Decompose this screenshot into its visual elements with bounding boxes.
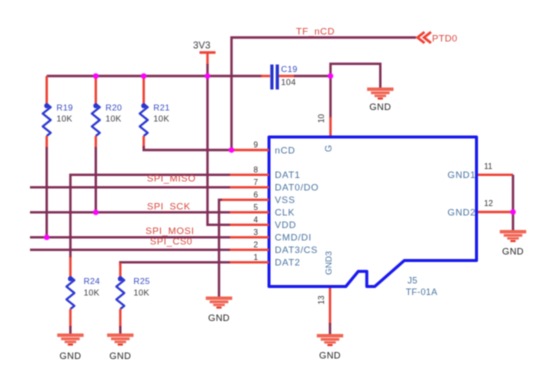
wire pin 1 row to R25	[120, 262, 230, 265]
svg-text:R25: R25	[134, 276, 151, 286]
wire R21 to nCD	[144, 146, 232, 150]
svg-text:J5: J5	[408, 276, 418, 286]
svg-text:1: 1	[254, 253, 259, 262]
svg-text:GND: GND	[109, 351, 131, 361]
svg-text:GND: GND	[502, 247, 524, 257]
svg-text:10K: 10K	[106, 114, 122, 124]
svg-text:R20: R20	[106, 103, 123, 113]
svg-text:GND: GND	[59, 351, 81, 361]
wire SPI_CS0 to pin 2	[30, 249, 230, 251]
svg-text:DAT0/DO: DAT0/DO	[275, 182, 319, 193]
pin 9 nCD	[232, 141, 296, 156]
svg-text:10K: 10K	[84, 288, 100, 298]
svg-text:104: 104	[281, 77, 296, 87]
junction bus/R20	[93, 73, 99, 79]
svg-text:5: 5	[254, 203, 259, 212]
ground GND under R25	[107, 334, 133, 362]
pin 8 DAT1	[230, 165, 300, 180]
wire SPI_MISO (pin 8 row) with drop to R24	[70, 175, 230, 258]
pin 13 stub	[329, 288, 331, 324]
wire R20 to SPI_SCK	[95, 147, 97, 212]
resistor R19	[43, 76, 73, 148]
junction GND2	[510, 209, 516, 215]
wire R25 to GND	[119, 326, 121, 334]
svg-text:11: 11	[484, 162, 493, 171]
ground GND top	[367, 88, 393, 113]
pin 3 CMD/DI	[230, 228, 312, 243]
svg-text:4: 4	[254, 215, 259, 224]
svg-text:10K: 10K	[57, 114, 73, 124]
svg-text:3: 3	[254, 228, 259, 237]
svg-text:PTD0: PTD0	[432, 33, 457, 44]
svg-text:CLK: CLK	[275, 207, 295, 218]
junction nCD	[229, 147, 235, 153]
wire TF_nCD vertical and horizontal to port	[232, 38, 417, 151]
wire pin13 to GND	[329, 323, 331, 334]
svg-text:GND: GND	[208, 313, 230, 323]
svg-text:10K: 10K	[153, 114, 169, 124]
resistor R20	[92, 76, 122, 148]
wire GND1 down to GND2	[512, 175, 514, 212]
svg-text:TF-01A: TF-01A	[406, 287, 438, 297]
svg-text:DAT3/CS: DAT3/CS	[275, 244, 318, 255]
wire junction to top GND	[331, 64, 381, 88]
wire VDD from 3V3 bus	[208, 77, 231, 225]
svg-text:CMD/DI: CMD/DI	[275, 232, 312, 243]
pin 11 GND1	[448, 162, 513, 180]
junction SCK/R20	[93, 210, 99, 216]
pin 4 VDD	[230, 215, 296, 230]
wire R24 to GND	[69, 326, 71, 334]
svg-text:10K: 10K	[134, 288, 150, 298]
svg-text:GND: GND	[369, 102, 391, 112]
pin 1 DAT2	[230, 253, 300, 268]
svg-text:GND2: GND2	[448, 206, 476, 217]
svg-text:10: 10	[317, 114, 326, 123]
svg-text:8: 8	[254, 165, 259, 174]
svg-text:R21: R21	[153, 103, 170, 113]
svg-text:13: 13	[317, 295, 326, 304]
svg-text:9: 9	[254, 141, 259, 150]
wire C19 to junction	[294, 75, 331, 77]
pin 5 CLK	[230, 203, 295, 218]
pin 7 DAT0/DO	[230, 178, 319, 193]
svg-text:7: 7	[254, 178, 259, 187]
svg-text:TF_nCD: TF_nCD	[296, 27, 335, 38]
capacitor C19	[261, 64, 298, 90]
pin 12 GND2	[448, 199, 513, 217]
ground GND VSS	[206, 297, 232, 324]
ground GND right	[500, 230, 526, 257]
svg-text:GND3: GND3	[324, 251, 334, 275]
pin 10 stub	[329, 117, 331, 137]
svg-text:12: 12	[484, 199, 493, 208]
wire VSS to GND	[219, 200, 222, 297]
junction MOSI/R19	[44, 235, 50, 241]
ground GND under R24	[57, 334, 83, 362]
svg-text:SPI_MISO: SPI_MISO	[147, 174, 196, 185]
wire SPI_SCK to pin 5	[30, 211, 230, 213]
svg-text:SPI_SCK: SPI_SCK	[147, 202, 191, 213]
wire junction to right GND	[512, 212, 514, 230]
junction bus/R21	[141, 73, 147, 79]
svg-text:C19: C19	[281, 64, 298, 74]
svg-text:VDD: VDD	[275, 219, 297, 230]
resistor R24	[66, 257, 100, 327]
svg-text:GND: GND	[319, 351, 341, 361]
wire pin 10	[329, 76, 331, 118]
wire 3V3 bus horizontal	[47, 75, 262, 77]
svg-text:DAT2: DAT2	[275, 257, 301, 268]
svg-text:2: 2	[254, 240, 259, 249]
svg-text:nCD: nCD	[275, 144, 296, 155]
pin 6 VSS	[221, 190, 295, 205]
wire SPI_MISO to pin 7	[30, 186, 230, 188]
ground GND bottom center	[317, 334, 343, 361]
port PTD0	[418, 32, 458, 44]
resistor R25	[116, 263, 150, 327]
svg-text:G: G	[324, 145, 334, 152]
wire R19 to SPI_MOSI	[46, 147, 48, 237]
svg-text:SPI_CS0: SPI_CS0	[150, 236, 193, 247]
resistor R21	[140, 76, 170, 147]
junction C19/pin10/GND	[328, 73, 334, 79]
svg-text:DAT1: DAT1	[275, 169, 301, 180]
junction bus/3V3	[205, 73, 211, 79]
svg-text:VSS: VSS	[275, 194, 296, 205]
component J5 TF-01A outline	[269, 137, 477, 287]
svg-text:R24: R24	[84, 276, 101, 286]
svg-text:6: 6	[254, 190, 259, 199]
power symbol 3V3	[193, 41, 216, 78]
svg-text:R19: R19	[57, 103, 74, 113]
wire SPI_MOSI to pin 3	[30, 236, 230, 238]
svg-text:3V3: 3V3	[193, 41, 211, 52]
svg-text:GND1: GND1	[448, 169, 476, 180]
pin 2 DAT3/CS	[230, 240, 318, 255]
